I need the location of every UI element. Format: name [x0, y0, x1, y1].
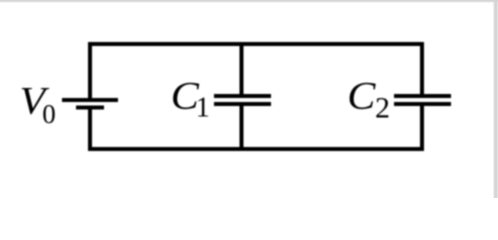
capacitor C2 top plate	[394, 94, 451, 98]
wire: right branch upper segment	[420, 42, 424, 94]
wire: left branch upper segment	[88, 42, 92, 98]
frame top border	[0, 0, 498, 2]
capacitor C2 bottom plate	[394, 102, 451, 106]
wire: top of loop	[88, 42, 424, 46]
svg-text:0: 0	[42, 99, 56, 129]
capacitor C1 bottom plate	[214, 102, 271, 106]
svg-text:1: 1	[196, 92, 210, 123]
wire: middle branch lower segment	[240, 106, 244, 149]
svg-text:C: C	[347, 74, 376, 117]
battery V0 long plate (positive)	[62, 98, 118, 102]
wire: middle branch upper segment	[240, 44, 244, 94]
frame right border	[494, 0, 498, 202]
battery V0 short plate (negative)	[76, 106, 104, 110]
capacitor C1 top plate	[214, 94, 271, 98]
wire: left branch lower segment	[88, 110, 92, 152]
wire: right branch lower segment	[420, 106, 424, 151]
svg-text:2: 2	[375, 91, 390, 124]
wire: bottom of loop	[88, 147, 424, 151]
